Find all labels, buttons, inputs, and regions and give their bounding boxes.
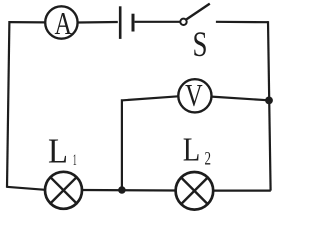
ammeter A xyxy=(45,5,77,41)
junction node right xyxy=(265,97,273,105)
wire top-left horizontal xyxy=(10,21,46,23)
svg-text:1: 1 xyxy=(73,152,77,169)
svg-text:V: V xyxy=(185,77,203,113)
lamp L1 xyxy=(45,172,82,209)
junction node bottom xyxy=(118,186,126,194)
wire lamp L2 to bottom-right corner xyxy=(213,190,271,192)
svg-text:2: 2 xyxy=(205,149,212,170)
wire lamp L1 to lamp L2 through junction xyxy=(82,189,176,192)
switch S pivot xyxy=(180,19,186,25)
switch S lever xyxy=(186,4,209,20)
voltmeter V xyxy=(178,77,211,113)
wire switch to top-right corner xyxy=(216,21,268,24)
wire left vertical xyxy=(7,21,9,188)
svg-text:S: S xyxy=(193,24,208,64)
lamp L1 label xyxy=(48,131,77,170)
lamp L2 xyxy=(176,172,214,210)
wire voltmeter left and down to bottom junction xyxy=(122,96,178,189)
wire ammeter to battery xyxy=(78,21,118,24)
battery cell long plate (+) xyxy=(119,6,122,39)
wire bottom-left to lamp L1 xyxy=(7,187,46,190)
wire right vertical xyxy=(268,21,271,191)
svg-text:A: A xyxy=(54,5,72,41)
lamp L2 label xyxy=(183,131,211,169)
wire voltmeter to right junction xyxy=(212,97,267,101)
svg-text:L: L xyxy=(183,131,201,168)
svg-text:L: L xyxy=(48,131,68,170)
wire battery to switch xyxy=(135,21,181,23)
battery cell short plate (-) xyxy=(132,14,135,32)
